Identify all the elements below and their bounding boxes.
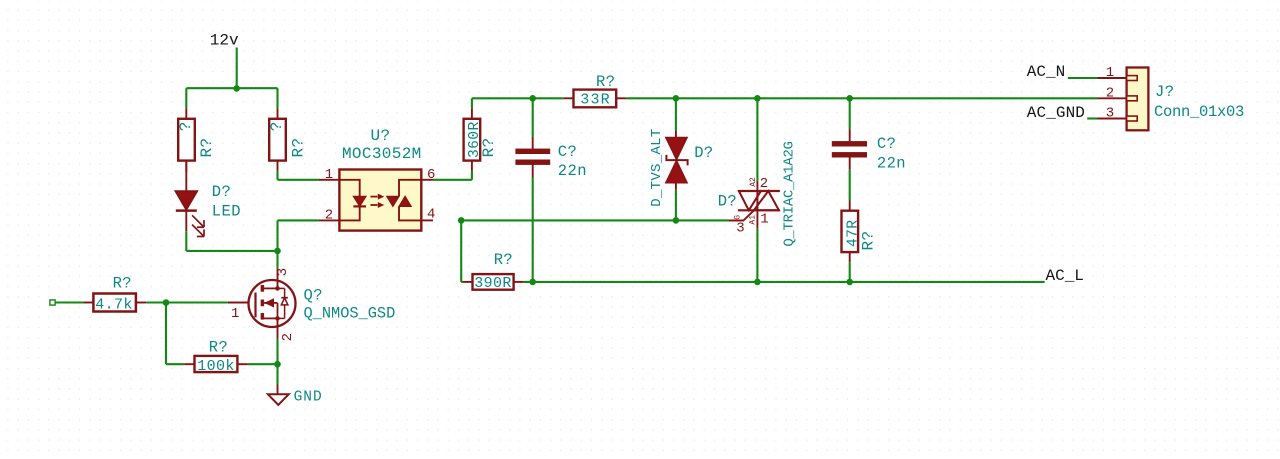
svg-text:Q_TRIAC_A1A2G: Q_TRIAC_A1A2G: [781, 141, 797, 246]
svg-text:2: 2: [325, 207, 334, 223]
svg-text:4.7k: 4.7k: [95, 296, 133, 313]
transistor Q1 channel dashes: [261, 285, 264, 319]
capacitor C2 top lead: [849, 98, 851, 141]
triac Q2 pin name G: [734, 215, 743, 220]
svg-text:3: 3: [736, 220, 745, 236]
svg-text:22n: 22n: [558, 162, 587, 180]
resistor R1 ref R?: [198, 137, 216, 157]
connector J1 pin 2 stub: [1098, 97, 1127, 99]
wire drain: [276, 251, 278, 269]
op-amp U1 body: [339, 170, 421, 231]
diode D2 bottom triangle: [666, 160, 688, 183]
transistor Q1 gate pin: [228, 302, 249, 304]
svg-text:R?: R?: [596, 73, 615, 91]
junction TVS bottom: [673, 217, 680, 224]
junction pin4 node: [458, 217, 465, 224]
svg-text:Q_NMOS_GSD: Q_NMOS_GSD: [304, 305, 396, 323]
triac Q2 A1 lead: [756, 210, 758, 282]
LED D1 anode pin: [185, 161, 187, 192]
connector J1 pin number 2: [1106, 86, 1115, 102]
junction top TVS: [673, 95, 680, 102]
resistor R8 body: [195, 356, 238, 372]
diode D2 bottom lead: [675, 183, 677, 221]
svg-text:?: ?: [268, 121, 286, 131]
junction 12v: [233, 85, 240, 92]
resistor R2 body: [269, 119, 286, 161]
resistor R7 body: [93, 294, 135, 312]
wire gate node down: [166, 303, 184, 365]
U1 internal triac: [387, 180, 422, 221]
unconnected wire end square: [50, 300, 55, 305]
U1 pin 6 stub: [421, 179, 433, 181]
transistor Q1 source link: [264, 316, 280, 321]
resistor R7 ref R?: [113, 274, 132, 292]
wire AC_GND: [1087, 117, 1097, 119]
connector J1 body: [1127, 68, 1149, 131]
diode D2 crossbar: [666, 155, 687, 166]
LED D1 cathode bar: [176, 209, 197, 212]
resistor R2 ref R?: [289, 137, 307, 157]
svg-text:2: 2: [280, 333, 296, 342]
wire source to 100k node: [276, 339, 278, 364]
ground pin stub: [277, 385, 279, 395]
net label AC_L: [1046, 267, 1084, 285]
svg-text:R?: R?: [494, 251, 513, 269]
transistor Q1 pin number 3: [275, 267, 291, 276]
svg-text:AC_L: AC_L: [1046, 267, 1084, 285]
resistor R6 value 47R: [846, 220, 862, 247]
junction bottom C2: [846, 279, 853, 286]
wire AC_N: [1068, 77, 1098, 79]
svg-text:2: 2: [760, 176, 769, 192]
junction bottom triac: [754, 279, 761, 286]
wire opto pin6 to R3: [433, 171, 472, 180]
capacitor C1 bottom lead: [532, 165, 534, 282]
svg-text:A2: A2: [749, 177, 758, 187]
wire 12v drop: [236, 48, 238, 89]
connector J1 pin 1 stub: [1098, 77, 1127, 79]
wire top row left: [472, 97, 563, 99]
triac Q2 A2 lead: [756, 98, 758, 191]
transistor Q1 body diode: [278, 288, 288, 318]
wire pin4 down: [461, 220, 462, 282]
triac Q2 pin number 2: [760, 176, 769, 192]
resistor R4 value 33R: [580, 92, 611, 109]
LED D1 ref D?: [212, 183, 231, 201]
svg-text:R?: R?: [198, 137, 216, 157]
triac Q2 gate: [729, 210, 754, 220]
svg-text:1: 1: [231, 306, 240, 322]
resistor R7 value 4.7k: [95, 296, 133, 313]
resistor R3 body: [464, 119, 481, 161]
capacitor C1 plates: [516, 149, 550, 165]
connector J1 pin tabs: [1127, 76, 1138, 121]
junction top triac: [754, 95, 761, 102]
svg-text:D?: D?: [694, 144, 713, 162]
junction LED/drain node: [274, 248, 281, 255]
resistor R6 ref R?: [860, 230, 878, 250]
U1 ref U?: [370, 127, 390, 145]
U1 internal LED: [339, 180, 366, 221]
triac Q2 value Q_TRIAC_A1A2G: [781, 141, 797, 246]
svg-text:AC_GND: AC_GND: [1027, 104, 1085, 122]
wire R8 to source node: [248, 363, 278, 365]
U1 pin number 1: [325, 167, 334, 183]
svg-text:D_TVS_ALT: D_TVS_ALT: [649, 128, 665, 206]
svg-text:Q?: Q?: [304, 286, 323, 304]
wire R3 top: [471, 98, 473, 108]
resistor R5 value 390R: [474, 275, 512, 292]
diode D2 ref D?: [694, 144, 713, 162]
wire bottom row: [524, 281, 1045, 283]
svg-text:22n: 22n: [877, 154, 906, 172]
wire R6 bottom: [849, 262, 851, 282]
junction gate node: [163, 299, 170, 306]
resistor R2 value ?: [268, 121, 286, 131]
resistor R5 stubs: [462, 281, 524, 283]
resistor R1 body: [178, 119, 195, 161]
resistor R2 pins: [277, 109, 279, 171]
triac Q2 center bar: [756, 191, 758, 210]
wire to GND: [276, 364, 278, 384]
svg-text:D?: D?: [718, 193, 737, 211]
resistor R4 33R stubs: [563, 97, 626, 99]
U1 pin 1 stub: [319, 179, 340, 181]
transistor Q1 source arrow: [264, 299, 278, 319]
capacitor C1 top lead: [532, 98, 534, 149]
svg-text:D?: D?: [212, 183, 231, 201]
resistor R3 ref R?: [480, 137, 498, 157]
junction top C2: [846, 95, 853, 102]
triac Q2 ref D?: [718, 193, 737, 211]
ground symbol: [268, 394, 289, 405]
U1 pin 2 stub: [319, 219, 340, 221]
resistor R8 stubs: [184, 363, 247, 365]
connector J1 pin number 3: [1106, 106, 1115, 122]
LED D1 arrow 2: [192, 225, 204, 237]
triac Q2 bottom rail: [738, 209, 780, 211]
svg-text:2: 2: [1106, 86, 1115, 102]
resistor R6 body: [842, 211, 859, 252]
svg-text:R?: R?: [209, 338, 228, 356]
svg-text:4: 4: [427, 206, 436, 222]
resistor R5 ref R?: [494, 251, 513, 269]
svg-text:MOC3052M: MOC3052M: [342, 145, 422, 163]
svg-text:390R: 390R: [474, 275, 512, 292]
LED D1 cathode pin: [185, 211, 187, 232]
capacitor C1 ref C?: [558, 143, 577, 161]
transistor Q1 value Q_NMOS_GSD: [304, 305, 396, 323]
wire middle row: [461, 219, 729, 221]
connector J1 pin number 1: [1106, 65, 1115, 81]
resistor R3 value 360R: [467, 121, 483, 158]
junction bottom C1: [529, 279, 536, 286]
wire opto pin2 to node: [278, 220, 319, 251]
resistor R8 value 100k: [197, 358, 235, 375]
transistor Q1 drain link: [264, 286, 280, 291]
svg-text:100k: 100k: [197, 358, 235, 375]
diode D2 value D_TVS_ALT: [649, 128, 665, 206]
diode D2 top lead: [675, 98, 677, 137]
svg-text:GND: GND: [294, 389, 323, 405]
capacitor C2 value 22n: [877, 154, 906, 172]
svg-text:1: 1: [325, 167, 334, 183]
U1 coupling arrows: [371, 194, 384, 207]
transistor Q1 drain pin: [277, 269, 279, 289]
wire R2 to opto pin1: [278, 171, 319, 180]
wire LED to node: [186, 231, 277, 251]
net label AC_N: [1027, 63, 1065, 81]
junction top C1: [529, 95, 536, 102]
resistor R4 33R body: [574, 90, 617, 108]
triac Q2 right triangle: [754, 191, 779, 210]
svg-text:A1: A1: [749, 215, 758, 225]
junction source node: [274, 361, 281, 368]
svg-text:R?: R?: [860, 230, 878, 250]
svg-text:LED: LED: [212, 202, 241, 220]
svg-text:AC_N: AC_N: [1027, 63, 1065, 81]
svg-text:C?: C?: [877, 135, 896, 153]
connector J1 value Conn_01x03: [1154, 103, 1244, 121]
svg-text:?: ?: [177, 121, 195, 131]
resistor R1 value ?: [177, 121, 195, 131]
svg-text:J?: J?: [1155, 83, 1174, 101]
LED D1 triangle: [176, 191, 197, 209]
U1 pin number 2: [325, 207, 334, 223]
wire gate node: [146, 301, 228, 303]
wire top row right: [626, 97, 1097, 99]
svg-text:R?: R?: [113, 274, 132, 292]
LED D1 arrow 1: [192, 215, 204, 227]
resistor R6 pins: [849, 201, 851, 263]
svg-text:R?: R?: [480, 137, 498, 157]
resistor R3 pins: [471, 109, 473, 171]
connector J1 ref J?: [1155, 83, 1174, 101]
svg-text:C?: C?: [558, 143, 577, 161]
transistor Q1 ref Q?: [304, 286, 323, 304]
resistor R1 pins: [185, 109, 187, 172]
triac Q2 top rail: [738, 190, 780, 192]
ground label GND: [294, 389, 323, 405]
svg-text:1: 1: [1106, 65, 1115, 81]
resistor R5 body: [473, 274, 514, 290]
triac Q2 pin number 1: [760, 211, 769, 227]
svg-text:Conn_01x03: Conn_01x03: [1154, 103, 1244, 121]
U1 pin number 6: [427, 167, 436, 183]
transistor Q1 source pin: [277, 318, 279, 339]
svg-text:G: G: [734, 215, 743, 220]
triac Q2 pin name A2: [749, 177, 758, 187]
transistor Q1 pin number 1: [231, 306, 240, 322]
U1 value MOC3052M: [342, 145, 422, 163]
triac Q2 pin name A1: [749, 215, 758, 225]
transistor Q1 pin number 2: [280, 333, 296, 342]
capacitor C2 plates: [832, 141, 867, 157]
connector J1 pin 3 stub: [1098, 118, 1127, 120]
svg-text:U?: U?: [370, 127, 390, 145]
svg-text:3: 3: [275, 267, 291, 276]
transistor Q1 body circle: [249, 280, 296, 327]
U1 pin 4 stub: [421, 219, 433, 221]
capacitor C2 bottom lead: [849, 157, 851, 200]
svg-text:33R: 33R: [580, 92, 611, 109]
triac Q2 pin number 3: [736, 220, 745, 236]
diode D2 top triangle: [666, 137, 688, 160]
wire top-left horizontal: [186, 88, 277, 108]
resistor R4 ref R?: [596, 73, 615, 91]
resistor R8 ref R?: [209, 338, 228, 356]
capacitor C2 ref C?: [877, 135, 896, 153]
net label AC_GND: [1027, 104, 1085, 122]
triac Q2 left triangle: [739, 191, 761, 210]
net label 12v: [210, 32, 239, 50]
resistor R7 stubs: [83, 302, 146, 304]
svg-text:3: 3: [1106, 106, 1115, 122]
svg-text:12v: 12v: [210, 32, 239, 50]
capacitor C1 value 22n: [558, 162, 587, 180]
transistor Q1 gate bar: [254, 293, 256, 318]
svg-text:R?: R?: [289, 137, 307, 157]
wire input: [55, 301, 83, 303]
svg-text:1: 1: [760, 211, 769, 227]
LED D1 value LED: [212, 202, 241, 220]
U1 pin number 4: [427, 206, 436, 222]
